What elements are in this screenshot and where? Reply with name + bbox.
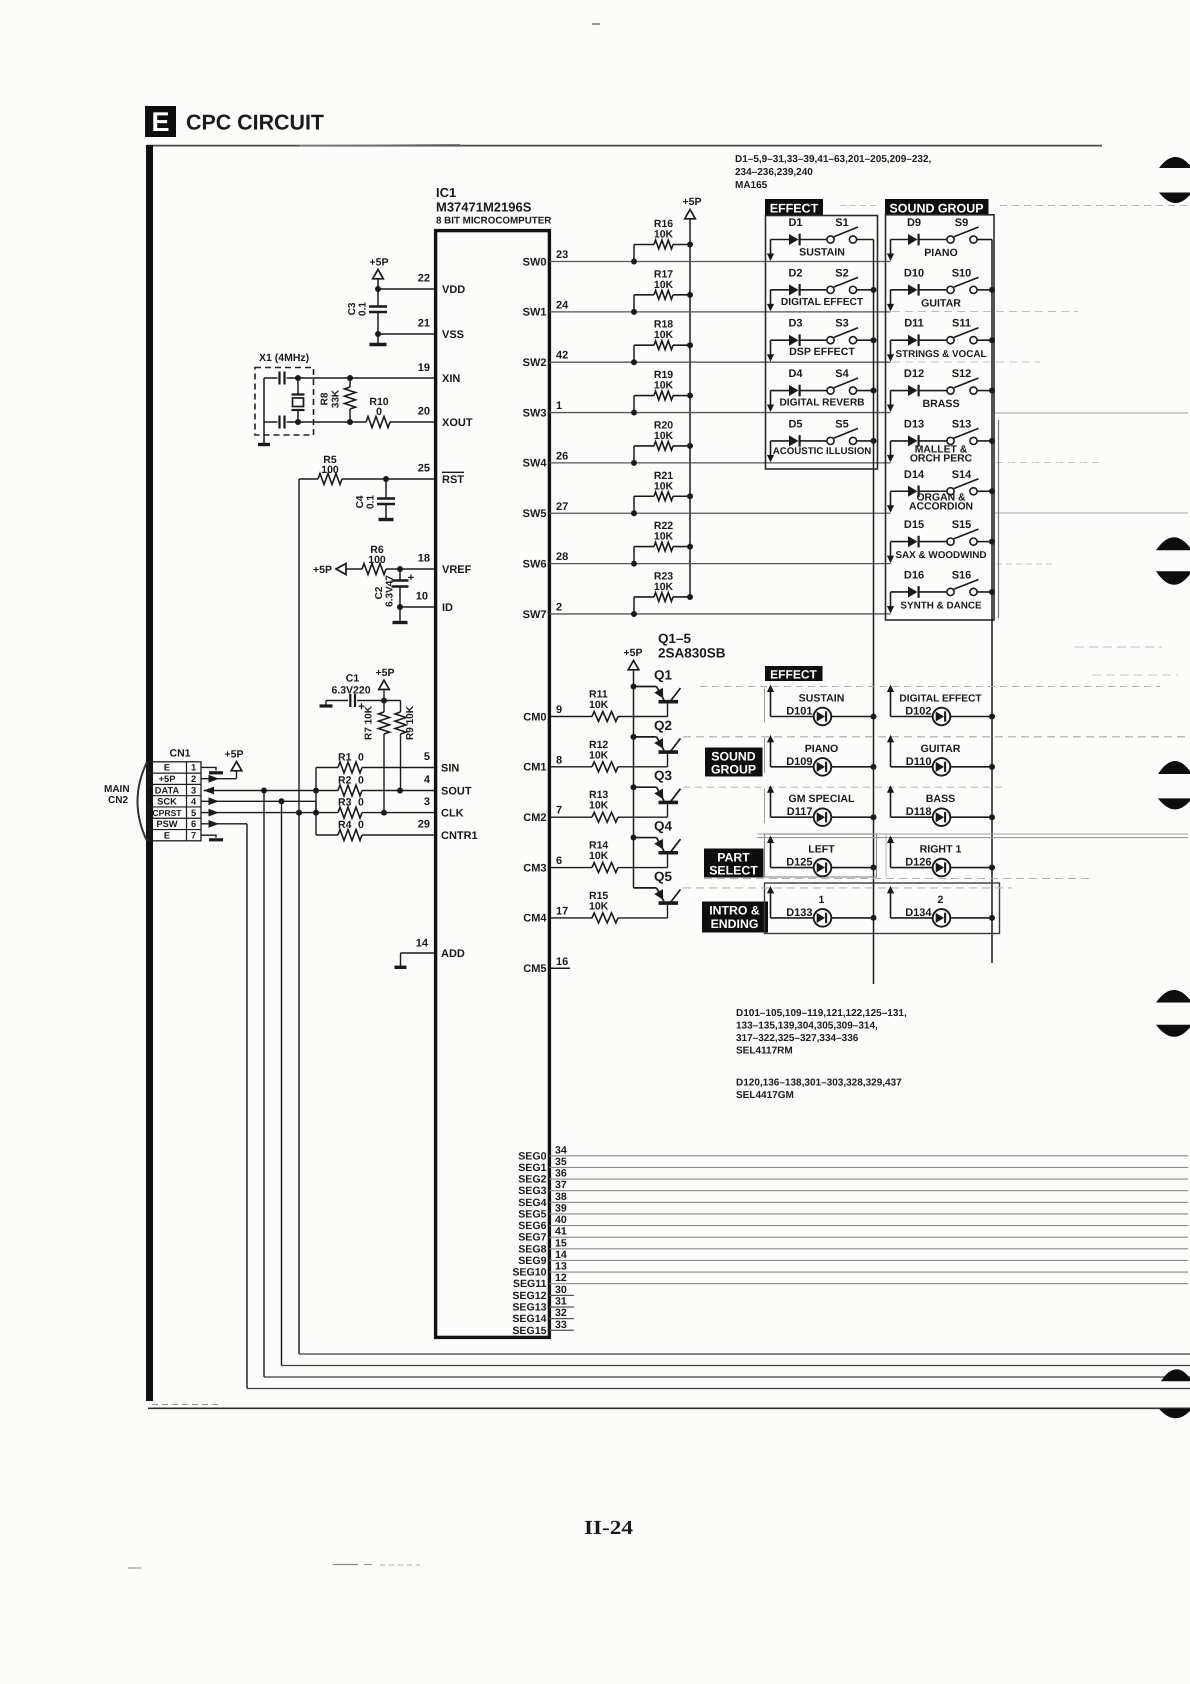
svg-text:CM4: CM4	[523, 913, 547, 925]
svg-text:D1–5,9–31,33–39,41–63,201–205,: D1–5,9–31,33–39,41–63,201–205,209–232,	[735, 154, 932, 165]
svg-text:10K: 10K	[589, 900, 609, 912]
wire stub to SW row	[890, 340, 892, 356]
wire SOUND box extra vertical	[998, 420, 1000, 618]
wire bottom bus to right edge (CPRST)	[299, 1353, 1190, 1355]
svg-text:SW0: SW0	[523, 256, 547, 268]
svg-text:4: 4	[424, 774, 431, 786]
crystal X1 dashed box	[255, 368, 314, 436]
wire SCK net	[209, 797, 220, 805]
capacitor C4	[383, 476, 389, 482]
svg-text:37: 37	[555, 1179, 567, 1191]
svg-text:SUSTAIN: SUSTAIN	[799, 693, 845, 705]
svg-text:0: 0	[376, 406, 382, 418]
svg-text:28: 28	[556, 551, 568, 563]
svg-text:+5P: +5P	[225, 749, 244, 761]
svg-text:VDD: VDD	[442, 284, 465, 296]
svg-text:2: 2	[938, 894, 944, 906]
wire SCK vertical drop	[281, 801, 283, 1365]
svg-text:SEG2: SEG2	[518, 1174, 546, 1186]
capacitor C2 6.3V47	[397, 566, 403, 572]
svg-text:29: 29	[418, 819, 430, 831]
svg-text:SOUND: SOUND	[711, 749, 756, 763]
svg-text:CM1: CM1	[523, 762, 546, 774]
svg-text:GUITAR: GUITAR	[921, 743, 961, 755]
svg-text:36: 36	[555, 1168, 567, 1180]
svg-text:SEG6: SEG6	[518, 1220, 546, 1232]
svg-text:33: 33	[555, 1319, 567, 1331]
svg-text:D117: D117	[787, 806, 813, 818]
resistor R7 10K	[383, 701, 385, 713]
svg-text:M37471M2196S: M37471M2196S	[436, 200, 532, 215]
svg-text:SW2: SW2	[523, 357, 547, 369]
svg-text:+5P: +5P	[313, 564, 332, 576]
svg-text:17: 17	[556, 905, 568, 917]
svg-text:GUITAR: GUITAR	[921, 297, 961, 309]
svg-text:VSS: VSS	[442, 329, 464, 341]
svg-text:SYNTH & DANCE: SYNTH & DANCE	[900, 601, 982, 612]
svg-text:SAX & WOODWIND: SAX & WOODWIND	[895, 550, 986, 561]
svg-text:D3: D3	[788, 318, 802, 330]
svg-text:D118: D118	[906, 806, 932, 818]
svg-text:0.1: 0.1	[366, 495, 377, 509]
ground (C4)	[379, 518, 394, 521]
wire PSW net	[209, 820, 220, 828]
svg-text:D125: D125	[786, 857, 812, 869]
svg-text:SEG7: SEG7	[518, 1232, 546, 1244]
svg-text:X1 (4MHz): X1 (4MHz)	[259, 352, 309, 364]
svg-text:D16: D16	[904, 569, 924, 581]
svg-text:SW6: SW6	[523, 558, 547, 570]
LED D102 DIGITAL EFFECT cell	[890, 689, 892, 717]
wire DATA / SOUT net	[204, 787, 215, 795]
svg-text:C2: C2	[374, 586, 385, 599]
svg-text:PIANO: PIANO	[805, 743, 839, 755]
svg-text:D102: D102	[905, 706, 931, 718]
wire VDD pin 22	[378, 288, 435, 290]
svg-text:D10: D10	[904, 267, 924, 279]
svg-text:XIN: XIN	[442, 373, 460, 385]
section badge E	[145, 106, 176, 137]
wire dashed line below PART SELECT row	[704, 878, 1090, 880]
svg-text:S12: S12	[952, 368, 972, 380]
label box SOUND GROUP (LEDs)	[705, 748, 763, 777]
wire bottom bus to right edge (SCK)	[282, 1365, 1190, 1367]
svg-text:10K: 10K	[589, 699, 609, 711]
svg-text:30: 30	[555, 1284, 567, 1296]
LED D117 GM SPECIAL cell	[770, 789, 772, 817]
svg-text:4: 4	[191, 797, 197, 807]
svg-text:5: 5	[191, 808, 196, 818]
svg-text:S13: S13	[952, 418, 972, 430]
LED D118 BASS cell	[890, 789, 892, 817]
svg-text:S10: S10	[952, 267, 972, 279]
svg-text:CPC CIRCUIT: CPC CIRCUIT	[186, 111, 324, 135]
svg-text:ADD: ADD	[441, 948, 465, 960]
svg-text:SEG13: SEG13	[512, 1301, 546, 1313]
svg-text:6.3V47: 6.3V47	[385, 575, 396, 607]
svg-text:25: 25	[418, 463, 430, 475]
svg-text:DIGITAL REVERB: DIGITAL REVERB	[779, 398, 864, 409]
wire R1-R4 left bus	[315, 768, 317, 836]
svg-text:31: 31	[555, 1295, 567, 1307]
svg-text:DSP EFFECT: DSP EFFECT	[789, 346, 855, 358]
wire stub to SW row	[890, 391, 892, 407]
svg-text:42: 42	[556, 350, 568, 362]
wire Q2 collector line	[683, 736, 1188, 738]
svg-text:10K: 10K	[654, 229, 674, 241]
frame top border line	[147, 145, 1102, 147]
svg-text:3: 3	[191, 785, 196, 795]
svg-text:SEG10: SEG10	[512, 1267, 546, 1279]
ground (C3/VSS)	[377, 334, 379, 344]
svg-text:3: 3	[424, 796, 430, 808]
svg-text:22: 22	[418, 273, 430, 285]
wire VSS pin 21	[378, 333, 435, 335]
resistor R9 10K	[400, 701, 402, 713]
svg-text:SEG11: SEG11	[513, 1278, 547, 1290]
wire XOUT pin 20	[264, 421, 278, 423]
svg-text:Q4: Q4	[654, 819, 673, 834]
svg-text:E: E	[151, 107, 169, 137]
LED cell faint left borders	[764, 688, 766, 723]
ground (crystal)	[263, 422, 265, 443]
svg-text:Q2: Q2	[654, 718, 672, 733]
svg-text:RIGHT 1: RIGHT 1	[920, 844, 962, 856]
binder mark pair 1	[1159, 157, 1190, 168]
wire ID pin 10	[400, 606, 435, 608]
svg-text:10K: 10K	[589, 800, 609, 812]
svg-text:D126: D126	[905, 857, 931, 869]
svg-text:SOUND GROUP: SOUND GROUP	[890, 202, 984, 216]
svg-text:E: E	[164, 830, 170, 840]
svg-text:DIGITAL EFFECT: DIGITAL EFFECT	[899, 694, 982, 705]
svg-text:BASS: BASS	[926, 793, 955, 805]
connector CN1 brace	[138, 762, 148, 841]
svg-text:SOUT: SOUT	[441, 786, 472, 798]
wire stub to SW row	[890, 542, 892, 558]
svg-text:10: 10	[416, 591, 428, 603]
svg-text:D14: D14	[904, 469, 925, 481]
svg-text:CPRST: CPRST	[152, 808, 182, 818]
svg-text:SEG1: SEG1	[518, 1162, 546, 1174]
svg-text:6: 6	[556, 855, 562, 867]
svg-text:S5: S5	[835, 418, 848, 430]
PART SELECT cell outline	[765, 834, 877, 877]
svg-text:10K: 10K	[589, 749, 609, 761]
svg-text:SW4: SW4	[523, 458, 548, 470]
svg-text:C1: C1	[346, 673, 360, 685]
wire VREF pin 18	[346, 568, 362, 570]
svg-text:7: 7	[556, 805, 562, 817]
svg-text:IC1: IC1	[436, 185, 456, 200]
wire faint net continuations (scan)	[1000, 205, 1188, 207]
svg-text:R9 10K: R9 10K	[405, 705, 416, 740]
svg-text:SEG5: SEG5	[518, 1208, 546, 1220]
svg-text:SCK: SCK	[157, 797, 177, 807]
svg-text:20: 20	[418, 406, 430, 418]
binder mark pair 3	[1158, 761, 1190, 774]
svg-text:S15: S15	[952, 519, 972, 531]
svg-text:STRINGS & VOCAL: STRINGS & VOCAL	[895, 349, 986, 360]
svg-text:SEG4: SEG4	[518, 1197, 546, 1209]
binder mark pair 5 (bottom)	[1161, 1369, 1190, 1381]
CN1 pin2 +5P wire	[201, 778, 237, 780]
wire bottom long line	[148, 1407, 1190, 1409]
svg-text:41: 41	[555, 1226, 567, 1238]
svg-text:SEG3: SEG3	[518, 1185, 546, 1197]
svg-text:D12: D12	[904, 368, 924, 380]
svg-text:10K: 10K	[654, 279, 674, 291]
svg-text:ID: ID	[442, 602, 453, 614]
svg-text:CM2: CM2	[523, 812, 546, 824]
svg-text:SW5: SW5	[523, 508, 547, 520]
svg-text:SEG9: SEG9	[518, 1255, 546, 1267]
svg-text:10K: 10K	[654, 581, 674, 593]
svg-text:MAIN: MAIN	[104, 784, 130, 795]
svg-text:D2: D2	[788, 267, 802, 279]
svg-text:12: 12	[555, 1272, 567, 1284]
wire XIN pin 19	[264, 377, 278, 379]
svg-text:R8: R8	[320, 392, 331, 405]
svg-text:D101–105,109–119,121,122,125–1: D101–105,109–119,121,122,125–131,	[736, 1008, 907, 1019]
svg-text:26: 26	[556, 450, 568, 462]
svg-text:CM0: CM0	[523, 711, 546, 723]
wire RST/CPRST vertical drop	[298, 479, 300, 1354]
svg-text:ACCORDION: ACCORDION	[909, 501, 973, 512]
INTRO & ENDING cells outline box	[765, 883, 1000, 934]
wire CPRST / CLK net	[209, 809, 220, 817]
svg-text:D120,136–138,301–303,328,329,4: D120,136–138,301–303,328,329,437	[736, 1078, 902, 1089]
wire long line above PART SELECT row	[757, 833, 1188, 835]
scan specks	[333, 1564, 358, 1566]
svg-text:133–135,139,304,305,309–314,: 133–135,139,304,305,309–314,	[736, 1021, 878, 1032]
svg-text:0.1: 0.1	[358, 302, 369, 316]
svg-text:6: 6	[191, 819, 196, 829]
svg-text:10K: 10K	[589, 850, 609, 862]
wire stub to SW row	[770, 240, 772, 256]
svg-text:RST: RST	[442, 474, 464, 486]
wire stub to SW row	[890, 240, 892, 256]
svg-text:14: 14	[555, 1249, 567, 1261]
label box PART SELECT	[704, 849, 764, 878]
svg-text:13: 13	[555, 1261, 567, 1273]
label box SOUND GROUP (switches)	[885, 199, 989, 215]
svg-text:SEG0: SEG0	[518, 1150, 546, 1162]
IC U1 M37471M2196S body	[436, 231, 550, 1338]
svg-text:Q5: Q5	[654, 869, 673, 884]
svg-text:SW3: SW3	[523, 407, 547, 419]
svg-text:CM3: CM3	[523, 862, 546, 874]
power +5P (transistor rail)	[628, 661, 639, 670]
svg-text:23: 23	[556, 249, 568, 261]
svg-text:D11: D11	[904, 318, 924, 330]
svg-text:10K: 10K	[654, 380, 674, 392]
svg-text:18: 18	[418, 553, 430, 565]
wire bottom bus to right edge (DATA)	[264, 1376, 1190, 1378]
label box INTRO & ENDING	[702, 902, 768, 933]
svg-text:15: 15	[555, 1237, 567, 1249]
svg-text:PSW: PSW	[156, 819, 177, 829]
LED D125 LEFT cell	[770, 840, 772, 868]
svg-text:27: 27	[556, 501, 568, 513]
svg-text:10K: 10K	[654, 480, 674, 492]
svg-text:S1: S1	[835, 217, 848, 229]
wire ADD pin 14 + ground	[401, 952, 436, 954]
svg-text:EFFECT: EFFECT	[770, 667, 817, 681]
wire bottom bus to right edge (PSW)	[247, 1388, 1190, 1390]
power +5P (VDD)	[373, 270, 384, 279]
wire stub to SW row	[770, 290, 772, 306]
svg-text:GM SPECIAL: GM SPECIAL	[789, 793, 855, 805]
svg-text:100: 100	[368, 554, 386, 566]
LED D133 1 cell	[770, 890, 772, 918]
ground (C2/ID)	[399, 607, 401, 621]
svg-text:E: E	[164, 763, 170, 773]
capacitor C3	[377, 289, 379, 306]
binder mark pair 4	[1156, 990, 1190, 1003]
svg-text:ENDING: ENDING	[711, 917, 759, 931]
label box EFFECT (LEDs)	[765, 666, 823, 681]
svg-text:SW7: SW7	[523, 609, 547, 621]
svg-text:INTRO &: INTRO &	[709, 904, 760, 918]
svg-text:D15: D15	[904, 519, 924, 531]
svg-text:R7 10K: R7 10K	[364, 705, 375, 740]
svg-text:S11: S11	[952, 318, 971, 330]
crystal element	[297, 378, 299, 394]
LED D134 2 cell	[890, 890, 892, 918]
svg-text:CNTR1: CNTR1	[441, 830, 478, 842]
svg-text:1: 1	[191, 763, 196, 773]
wire Q1 collector line	[700, 686, 1160, 688]
svg-text:BRASS: BRASS	[922, 398, 959, 410]
svg-text:0: 0	[358, 752, 364, 764]
svg-text:0: 0	[358, 819, 364, 831]
svg-text:0: 0	[358, 775, 364, 787]
svg-text:SEL4417GM: SEL4417GM	[736, 1090, 794, 1101]
svg-text:+5P: +5P	[624, 647, 643, 659]
svg-text:C4: C4	[355, 495, 366, 508]
svg-text:0: 0	[358, 797, 364, 809]
SOUND GROUP outline box	[886, 215, 995, 620]
svg-text:D134: D134	[905, 907, 932, 919]
svg-text:24: 24	[556, 299, 569, 311]
svg-text:GROUP: GROUP	[711, 763, 756, 777]
svg-text:35: 35	[555, 1156, 567, 1168]
svg-text:7: 7	[191, 830, 196, 840]
svg-text:SELECT: SELECT	[709, 863, 758, 877]
svg-text:D5: D5	[788, 418, 802, 430]
svg-text:10K: 10K	[654, 430, 674, 442]
svg-text:10K: 10K	[654, 329, 674, 341]
svg-text:II-24: II-24	[584, 1517, 633, 1539]
svg-text:S14: S14	[952, 469, 972, 481]
svg-text:1: 1	[819, 894, 825, 906]
svg-text:317–322,325–327,334–336: 317–322,325–327,334–336	[736, 1033, 859, 1044]
svg-text:+: +	[408, 572, 414, 584]
wire crystal left leg	[263, 378, 265, 422]
svg-text:8 BIT MICROCOMPUTER: 8 BIT MICROCOMPUTER	[436, 216, 551, 227]
svg-text:Q1: Q1	[654, 668, 673, 683]
wire transistor +5P rail	[633, 670, 635, 888]
EFFECT group outline box	[766, 216, 878, 470]
svg-text:2: 2	[556, 601, 562, 613]
svg-text:S3: S3	[835, 318, 848, 330]
power +5P (CN1)	[231, 762, 242, 771]
svg-text:D13: D13	[904, 418, 924, 430]
svg-text:1: 1	[556, 400, 562, 412]
svg-text:SEG8: SEG8	[518, 1243, 546, 1255]
svg-text:8: 8	[556, 754, 562, 766]
svg-text:14: 14	[416, 938, 429, 950]
svg-text:9: 9	[556, 704, 562, 716]
power +5P (R7/R9 node)	[379, 680, 390, 689]
wire RST pin 25	[299, 478, 318, 480]
svg-text:2SA830SB: 2SA830SB	[658, 646, 726, 661]
LED D109 PIANO cell	[770, 739, 772, 767]
chassis ground (C1)	[325, 701, 327, 705]
svg-text:+5P: +5P	[370, 257, 389, 269]
LED D101 SUSTAIN cell	[770, 689, 772, 717]
LED D126 RIGHT 1 cell	[890, 840, 892, 868]
wire Q4 collector line	[757, 837, 1188, 839]
svg-text:SUSTAIN: SUSTAIN	[799, 247, 845, 259]
svg-text:S2: S2	[835, 267, 848, 279]
svg-text:16: 16	[556, 956, 568, 968]
svg-text:CM5: CM5	[523, 963, 546, 975]
frame left black bar	[146, 145, 153, 1401]
svg-text:SEG14: SEG14	[512, 1313, 546, 1325]
svg-text:CN1: CN1	[169, 748, 190, 760]
svg-text:C3: C3	[347, 302, 358, 315]
svg-text:VREF: VREF	[442, 564, 472, 576]
svg-text:S16: S16	[952, 569, 972, 581]
svg-text:D109: D109	[786, 756, 812, 768]
svg-text:2: 2	[191, 774, 196, 784]
svg-text:XOUT: XOUT	[442, 417, 473, 429]
svg-text:234–236,239,240: 234–236,239,240	[735, 167, 813, 178]
svg-text:D133: D133	[786, 907, 812, 919]
svg-text:SEG12: SEG12	[512, 1290, 546, 1302]
svg-text:DIGITAL EFFECT: DIGITAL EFFECT	[781, 297, 864, 308]
svg-text:32: 32	[555, 1307, 567, 1319]
wire stub to SW row	[770, 391, 772, 407]
svg-text:D4: D4	[788, 368, 803, 380]
svg-text:D101: D101	[786, 706, 812, 718]
svg-text:ACOUSTIC ILLUSION: ACOUSTIC ILLUSION	[773, 446, 872, 457]
wire stub to SW row	[770, 441, 772, 457]
svg-text:+5P: +5P	[376, 667, 395, 679]
CN1 pin1 E wire + chassis ground	[201, 767, 216, 770]
svg-text:SW1: SW1	[523, 307, 547, 319]
connector CN1 table	[149, 762, 202, 841]
svg-text:SIN: SIN	[441, 763, 459, 775]
binder mark pair 2	[1156, 537, 1190, 550]
svg-text:MA165: MA165	[735, 180, 768, 191]
wire stub to SW row	[890, 290, 892, 306]
wire +5P pull-up rail	[689, 219, 691, 597]
svg-text:CLK: CLK	[441, 808, 464, 820]
svg-text:D1: D1	[788, 217, 802, 229]
svg-text:10K: 10K	[654, 531, 674, 543]
wire stub to SW row	[890, 491, 892, 507]
power +5P (switch pull-up rail)	[685, 210, 696, 219]
svg-text:39: 39	[555, 1202, 567, 1214]
wire stub to SW row	[890, 441, 892, 457]
svg-text:Q1–5: Q1–5	[658, 631, 692, 646]
svg-text:21: 21	[418, 318, 430, 330]
svg-text:34: 34	[555, 1144, 567, 1156]
svg-text:SEL4117RM: SEL4117RM	[736, 1046, 793, 1057]
